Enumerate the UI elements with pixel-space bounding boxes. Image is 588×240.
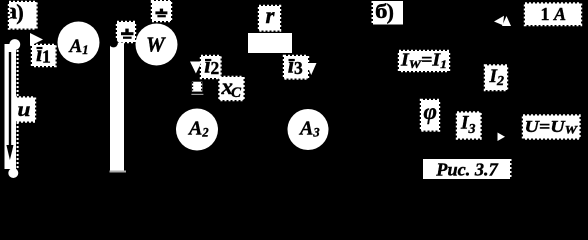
svg-text:1 А: 1 А [541,4,567,24]
phasor arrowhead I1 (up) [502,16,511,26]
label r [259,3,280,31]
svg-text:IW=I1: IW=I1 [400,50,447,72]
label 1 A (scale) [525,4,581,26]
ammeter A2 [176,109,218,151]
wire (wattmeter voltage-coil drop bar) [110,43,124,171]
phasor arrowhead (left) [494,16,504,25]
phasor arrowhead U (right) [498,133,506,142]
current arrow i3 [306,63,317,75]
label I3 [457,113,481,139]
label phi [421,99,439,131]
capacitor plate box [191,82,203,95]
label i2 [201,53,221,79]
svg-text:φ: φ [424,99,437,124]
label I2 [485,65,507,90]
current arrow i1 [30,33,43,46]
label i1 [32,41,56,67]
polarity mark (current coil) [117,22,135,42]
ammeter A3 [288,109,329,150]
label IW=I1 [399,50,449,72]
voltage arrow u [6,52,13,160]
ammeter A1 [58,22,100,64]
label xC [220,74,244,101]
node B (bottom-left terminal) [8,168,18,178]
svg-text:2: 2 [211,58,220,78]
junction dot (voltage-coil tap) [109,39,118,48]
svg-text:): ) [16,0,24,25]
label b) [373,0,404,25]
svg-text:u: u [18,99,31,121]
label u [15,98,35,122]
svg-text:С: С [231,85,242,101]
label a) [6,0,37,29]
wire stub below bar [110,171,127,173]
svg-text:3: 3 [294,58,303,78]
svg-text:1: 1 [42,46,51,66]
node A (top-left terminal) [9,39,20,50]
wire (left vertical bar) [5,44,18,170]
svg-text:Рис. 3.7: Рис. 3.7 [435,160,499,180]
svg-text:W: W [146,32,166,56]
caption Fig 3.7 [423,159,511,180]
svg-text:r: r [266,3,276,28]
polarity mark (voltage coil) [152,1,171,21]
wattmeter W [136,24,178,66]
label U=UW [523,116,580,139]
resistor r body [248,33,292,53]
svg-text:): ) [387,0,394,24]
label i3 [284,53,308,79]
current arrow i2 [190,62,202,74]
